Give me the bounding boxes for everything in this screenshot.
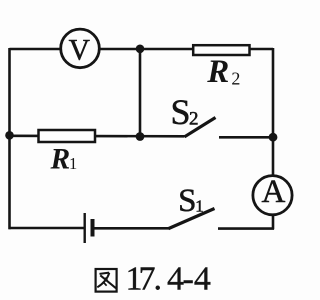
node: left middle junction <box>5 131 14 140</box>
battery short plate (-) <box>91 219 95 237</box>
svg-text:17.4-4: 17.4-4 <box>126 261 211 296</box>
svg-text:S2: S2 <box>171 92 199 132</box>
wire: right vertical <box>272 48 275 229</box>
wire: left vertical <box>8 48 11 229</box>
svg-text:V: V <box>69 34 90 66</box>
caption glyph 图 <box>96 269 117 292</box>
wire: middle horizontal left (R1 branch to S2) <box>9 135 185 138</box>
voltmeter V <box>61 29 100 68</box>
wire: top horizontal <box>10 48 274 51</box>
wire: middle horizontal right (S2 to right rail) <box>219 136 274 139</box>
svg-text:R1: R1 <box>50 144 78 176</box>
svg-text:R2: R2 <box>206 54 240 90</box>
svg-text:A: A <box>261 174 285 210</box>
wire: bottom right segment (S1 to corner) <box>218 227 274 230</box>
switch S2 blade <box>185 118 216 137</box>
wire: bottom middle segment (battery to S1) <box>93 227 169 230</box>
wire: vertical branch between top and middle <box>139 49 142 137</box>
resistor R1 <box>39 130 96 142</box>
wire: bottom left segment (to battery) <box>9 227 85 230</box>
resistor R2 <box>193 45 249 55</box>
node: right middle junction <box>269 133 278 142</box>
node: middle junction <box>136 132 145 141</box>
battery long plate (+) <box>83 213 85 243</box>
svg-text:S1: S1 <box>178 183 204 219</box>
node: top junction <box>136 45 145 54</box>
ammeter A <box>253 174 292 215</box>
switch S1 blade <box>168 209 214 229</box>
